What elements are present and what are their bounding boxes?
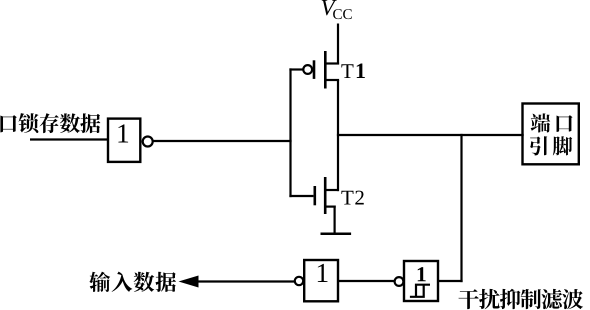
node port pin box	[523, 104, 579, 165]
transistor T1 (PMOS)	[303, 51, 339, 89]
label T2	[341, 191, 363, 205]
wire gate bus vertical	[289, 68, 291, 197]
label U3 value 1	[418, 267, 426, 281]
label 端口引脚 (port pin)	[531, 113, 573, 132]
net VCC label	[322, 0, 337, 15]
wire T1 gate lead	[289, 68, 302, 70]
wire T2 gate lead	[289, 195, 313, 197]
wire U2 output to arrow	[194, 280, 294, 282]
wire output node to port pin	[337, 134, 524, 136]
wire branch to U3	[437, 280, 463, 282]
label T1	[341, 63, 364, 78]
label U3 hysteresis symbol	[410, 285, 430, 297]
gate U1 output bubble	[143, 137, 153, 147]
label 口锁存数据 (port latch data)	[0, 113, 100, 133]
label 输入数据 (input data)	[89, 272, 176, 292]
wire T2 source down	[334, 206, 336, 234]
wire input to U1	[30, 138, 107, 140]
gate U1 inverter box	[108, 119, 140, 162]
wire branch vertical	[460, 134, 462, 282]
wire U1 output to gate bus	[153, 140, 292, 142]
gate U2 inverter box	[304, 260, 338, 301]
ground	[321, 233, 352, 236]
gate U2 output bubble	[295, 277, 303, 285]
wire T1 source to T2 drain	[337, 80, 339, 191]
gate U3 schmitt box	[404, 261, 438, 301]
arrow to input data	[179, 276, 199, 288]
wire U3 to U2	[339, 280, 394, 282]
label U2 value 1	[318, 264, 328, 282]
gate U3 output bubble	[395, 277, 404, 286]
label U1 value 1	[118, 124, 128, 142]
wire VCC lead	[337, 24, 339, 65]
label 干扰抑制滤波 (noise suppression filter)	[459, 289, 584, 309]
transistor T2 (NMOS)	[315, 177, 339, 214]
